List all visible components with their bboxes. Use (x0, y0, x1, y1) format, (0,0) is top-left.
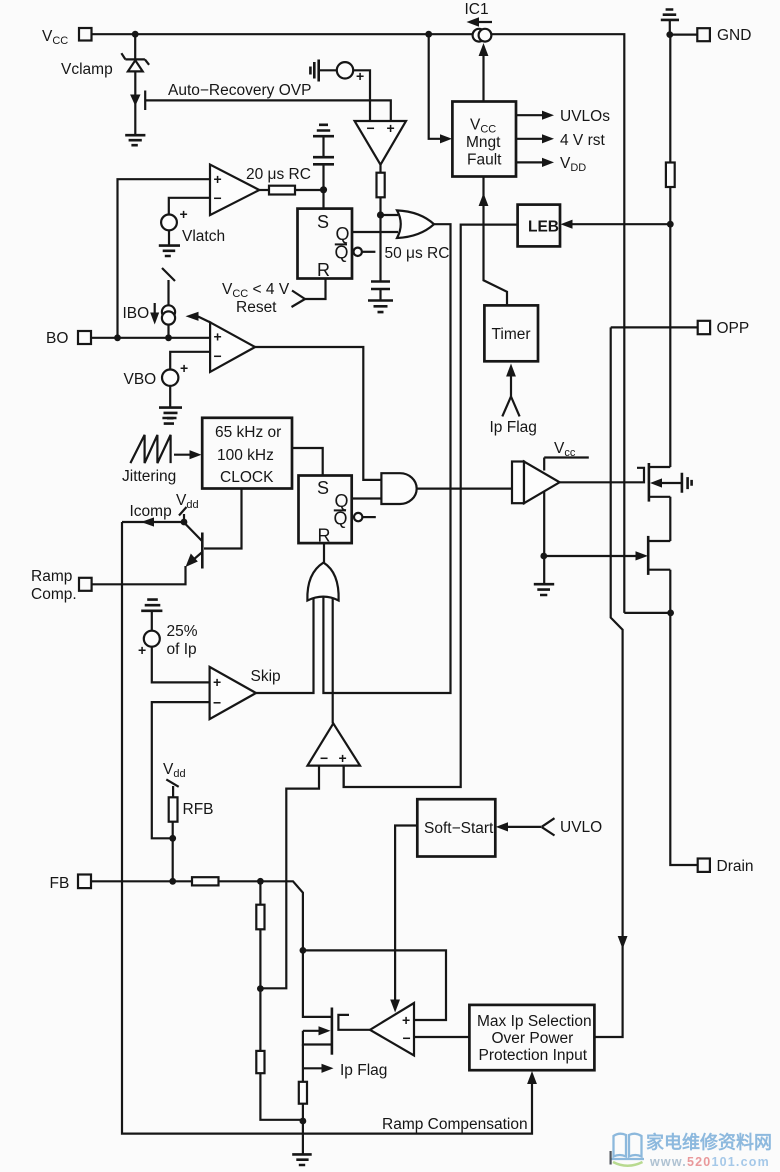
svg-text:BO: BO (46, 330, 68, 347)
wire resistor to ground (302, 1104, 304, 1154)
wire driver ground tap (543, 492, 545, 584)
arrow jittering into clock (174, 454, 194, 456)
current source IBO (162, 305, 175, 318)
svg-text:+: + (387, 120, 395, 136)
wire clock to jitter transistor base (204, 489, 242, 549)
ground below Vlatch (159, 246, 180, 256)
arrow VDD (516, 161, 546, 163)
op-amp Vlatch comparator (210, 165, 259, 216)
waveform Jittering sawtooth (130, 435, 170, 463)
wire clock to latch B S input (292, 448, 323, 476)
wire resistor to S node (295, 189, 324, 191)
wire latch A R input (305, 279, 326, 300)
svg-text:OPP: OPP (717, 320, 750, 337)
watermark logo book (611, 1134, 644, 1159)
wire M3 source down (302, 1045, 304, 1083)
node sense top junction (300, 947, 307, 954)
transistor Q1 ramp follower (201, 533, 204, 569)
svg-text:+: + (180, 360, 188, 376)
source Vlatch (161, 215, 177, 231)
svg-text:Q: Q (334, 509, 348, 529)
svg-text:+: + (402, 1012, 410, 1028)
wire Vlatch comparator minus input (169, 198, 210, 215)
svg-text:Ramp: Ramp (31, 568, 72, 585)
node OVP line tap bar (144, 91, 146, 111)
ground inverted GND pin (661, 10, 679, 20)
latch SR A (OVP latch) (298, 209, 353, 279)
switch RFB blade (166, 779, 178, 786)
node VCC-Vclamp junction (132, 31, 139, 38)
switch Vdd blade (179, 507, 187, 516)
svg-text:+: + (214, 171, 222, 187)
box LEB (518, 205, 560, 247)
wire VCC rail into Fault box (429, 34, 445, 139)
svg-text:GND: GND (717, 27, 751, 44)
svg-text:S: S (317, 478, 329, 498)
svg-text:Jittering: Jittering (122, 468, 176, 485)
resistor RFB (169, 797, 178, 821)
node Qbar bubble latch B (354, 513, 362, 521)
svg-text:Q: Q (336, 224, 350, 244)
wire AND output to driver (417, 488, 513, 490)
wire Soft-Start output down to Max comparator (395, 826, 417, 1008)
svg-text:R: R (318, 526, 331, 546)
switch latch blade (162, 268, 175, 306)
transistor M1 upper MOSFET (648, 463, 651, 502)
svg-text:+: + (339, 750, 347, 766)
arrow IBO current down (154, 303, 156, 319)
wire latch A Q output to OR gate (352, 231, 398, 233)
svg-text:20 μs RC: 20 μs RC (246, 166, 311, 183)
wire skip output to OR-B left input (256, 596, 314, 693)
svg-text:FB: FB (50, 875, 70, 892)
node 20us S junction (320, 186, 327, 193)
op-amp BO comparator (210, 322, 255, 372)
or-gate 50us OR (397, 210, 434, 238)
wire Vclamp branch (134, 34, 136, 58)
wire OPP to Max Ip box with jog and down arrow (594, 327, 622, 1037)
or-gate OR-B fault or (307, 563, 338, 601)
wire node down to 50us capacitor (379, 215, 381, 281)
wire left rail ramp compensation (122, 522, 532, 1134)
svg-text:−: − (320, 750, 328, 766)
resistor divider upper (256, 905, 264, 930)
transistor M2 lower MOSFET (647, 536, 650, 575)
svg-text:−: − (214, 348, 222, 364)
wire CS minus input to FB divider (260, 766, 319, 989)
wire divider middle (259, 929, 261, 1051)
svg-text:Mngt: Mngt (466, 134, 501, 151)
capacitor 20us RC (322, 165, 324, 190)
ground below Vclamp (125, 135, 145, 145)
node BO junction left (114, 334, 121, 341)
wire source to OVP comparator (353, 70, 370, 121)
node Qbar bubble latch A (354, 248, 362, 256)
svg-text:Fault: Fault (467, 152, 502, 169)
svg-text:65 kHz or: 65 kHz or (215, 424, 281, 441)
node startup junction (667, 610, 674, 617)
svg-text:Vlatch: Vlatch (182, 228, 225, 245)
svg-text:−: − (214, 190, 222, 206)
wire IC1 to Fault box with up arrow (482, 46, 484, 102)
svg-text:家电维修资料网: 家电维修资料网 (646, 1132, 772, 1153)
wire S input latch A (322, 190, 324, 209)
resistor divider lower (256, 1051, 264, 1073)
svg-text:100 kHz: 100 kHz (217, 447, 274, 464)
wire node to OR gate upper input (381, 214, 399, 216)
zener diode Vclamp (121, 53, 149, 65)
wire LEB output to CS plus input (344, 225, 518, 787)
svg-text:Auto−Recovery OVP: Auto−Recovery OVP (168, 82, 311, 99)
svg-text:Vclamp: Vclamp (61, 61, 113, 78)
wire Vlatch comparator plus input to BO node (118, 179, 211, 338)
ground below driver (534, 584, 554, 595)
source 25% of Ip (144, 631, 160, 647)
node RFB skip junction (169, 835, 176, 842)
latch SR B (PWM latch) (299, 476, 352, 544)
wire 25% source to skip plus input (152, 647, 210, 683)
chevron reset input (292, 291, 306, 308)
svg-text:RFB: RFB (183, 801, 214, 818)
wire LEB input arrow from sense node (566, 223, 670, 225)
svg-text:−: − (403, 1030, 411, 1046)
node source ground junction (300, 1118, 307, 1125)
svg-text:VCC < 4 V: VCC < 4 V (222, 281, 290, 300)
and-gate PWM gate (381, 473, 416, 504)
ground below VBO (159, 408, 182, 419)
box 65kHz 100kHz CLOCK (202, 418, 292, 489)
svg-text:Over Power: Over Power (492, 1030, 574, 1047)
node 50us junction (377, 211, 384, 218)
svg-text:UVLO: UVLO (560, 819, 602, 836)
svg-text:Reset: Reset (236, 299, 277, 316)
resistor FB series (192, 877, 219, 885)
pin Ramp Comp (79, 578, 92, 591)
wire skip minus input to FB node (152, 702, 210, 838)
box Timer (484, 305, 538, 361)
arrow Ip Flag output (303, 1067, 326, 1069)
wire Auto-Recovery OVP line (145, 100, 391, 121)
wire OR-B output to latch B R (323, 543, 325, 563)
svg-text:+: + (214, 329, 222, 345)
wire GND line down to resistor (669, 35, 671, 164)
arrow driver low-side to M2 gate (544, 555, 641, 557)
svg-text:VBO: VBO (124, 371, 157, 388)
svg-text:4 V rst: 4 V rst (560, 132, 605, 149)
wire sense line to MOSFET drain (669, 187, 671, 467)
wire FB line (91, 881, 303, 951)
wire Vlatch comparator output (259, 189, 269, 191)
wire driver output to M1 gate (560, 468, 644, 483)
wire divider to source node (260, 1073, 303, 1120)
box Max Ip Selection (469, 1005, 594, 1070)
wire divider upper (259, 881, 261, 905)
svg-text:Soft−Start: Soft−Start (424, 820, 494, 837)
ground bottom (292, 1154, 312, 1165)
ground below 50us capacitor (368, 301, 393, 313)
wire resistor to node (379, 197, 381, 215)
wire sense node to Max comparator plus (303, 950, 446, 1020)
node driver gnd junction (540, 553, 547, 560)
svg-text:+: + (180, 206, 188, 222)
wire VCC branch to startup node (624, 612, 668, 614)
pin VCC (79, 28, 92, 41)
svg-text:Protection Input: Protection Input (479, 1047, 588, 1064)
arrow current down on Vclamp wire (130, 95, 140, 107)
pin BO (78, 331, 91, 344)
wire RFB to FB node (172, 822, 174, 882)
node Vdd icomp junction (181, 519, 188, 526)
svg-text:www.520101.com: www.520101.com (649, 1155, 770, 1169)
pin FB (78, 875, 91, 889)
source VBO (162, 370, 178, 386)
node LEB sense junction (667, 221, 674, 228)
arrow UVLO into Soft-Start (500, 826, 541, 828)
svg-text:R: R (317, 260, 330, 280)
ground sideways for OVP reference source (310, 60, 318, 82)
node GND junction (666, 31, 673, 38)
wire latch B Q to AND gate (352, 497, 382, 499)
svg-text:−: − (213, 695, 221, 711)
wire BO comparator output to AND gate (255, 347, 382, 480)
node divider CS junction (257, 985, 264, 992)
svg-text:−: − (367, 120, 375, 136)
resistor OVP pull (377, 173, 385, 198)
svg-text:S: S (317, 212, 329, 232)
svg-text:Skip: Skip (251, 668, 281, 685)
arrow UVLOs (516, 114, 546, 116)
svg-text:Ip Flag: Ip Flag (490, 419, 537, 436)
pin Drain (698, 859, 710, 872)
svg-text:Drain: Drain (717, 858, 754, 875)
wire BO comparator minus input (170, 352, 210, 370)
resistor 20us RC (269, 186, 295, 195)
node VCC-Fault junction (425, 31, 432, 38)
svg-text:Icomp: Icomp (130, 503, 172, 520)
svg-text:25%: 25% (167, 623, 198, 640)
resistor on GND sense line (666, 163, 675, 188)
chevron UVLO input (542, 818, 555, 835)
op-amp OVP comparator (355, 121, 406, 165)
op-amp Max Ip comparator (370, 1003, 414, 1056)
node FB RFB junction (169, 878, 176, 885)
chevron Ip Flag input (502, 397, 519, 417)
svg-text:LEB: LEB (528, 219, 559, 236)
svg-text:Q: Q (335, 243, 349, 263)
wire driver vcc tap (543, 458, 545, 471)
svg-text:UVLOs: UVLOs (560, 108, 610, 125)
arrow 4V rst (516, 138, 546, 140)
source OVP reference (337, 62, 353, 78)
box VCC Mngt Fault (452, 102, 516, 177)
arrow Ip Flag into Timer (510, 368, 512, 397)
box Soft-Start (417, 799, 495, 856)
wire OPP line (611, 326, 698, 328)
svg-text:Ramp Compensation: Ramp Compensation (382, 1116, 528, 1133)
wire VCC rail (92, 33, 474, 35)
svg-text:Comp.: Comp. (31, 586, 77, 603)
svg-text:+: + (138, 642, 146, 658)
svg-text:CLOCK: CLOCK (220, 469, 274, 486)
svg-text:Timer: Timer (492, 326, 531, 343)
wire Max comparator output to M3 gate (338, 1015, 370, 1030)
svg-text:IC1: IC1 (465, 1, 489, 18)
wire Fault box bottom to Timer with up arrow (484, 177, 508, 307)
svg-text:Ip Flag: Ip Flag (340, 1062, 387, 1079)
op-amp Skip comparator (210, 667, 256, 719)
ground inverted above 20us capacitor (313, 125, 334, 136)
svg-text:50 μs RC: 50 μs RC (385, 245, 450, 262)
op-amp PWM CS comparator (308, 723, 361, 765)
pin OPP (698, 321, 710, 334)
arrow Icomp mirror (122, 521, 184, 523)
wire Max comparator minus to box (414, 1036, 469, 1038)
pin GND (670, 33, 698, 35)
wire OR-A output to OR-B middle input (323, 224, 450, 693)
svg-text:+: + (213, 674, 221, 690)
svg-text:Max Ip Selection: Max Ip Selection (477, 1013, 592, 1030)
transistor M3 sense MOSFET (331, 1008, 334, 1055)
driver buffer (512, 462, 524, 504)
ground inverted above 25% source (141, 600, 162, 611)
resistor M3 source (299, 1082, 307, 1104)
svg-text:IBO: IBO (123, 305, 150, 322)
wire CS plus leg (343, 766, 345, 787)
capacitor 50us RC (371, 282, 390, 290)
arrow comparator controls IBO (198, 316, 212, 323)
wire comparator to resistor (379, 165, 381, 174)
svg-text:of Ip: of Ip (167, 641, 197, 658)
wire PWM comparator output to OR-B right input (332, 598, 334, 723)
node BO junction IBO (165, 334, 172, 341)
wire BO line (91, 337, 210, 339)
ground sideways M1 body (682, 473, 692, 493)
node FB divider junction (257, 878, 264, 885)
